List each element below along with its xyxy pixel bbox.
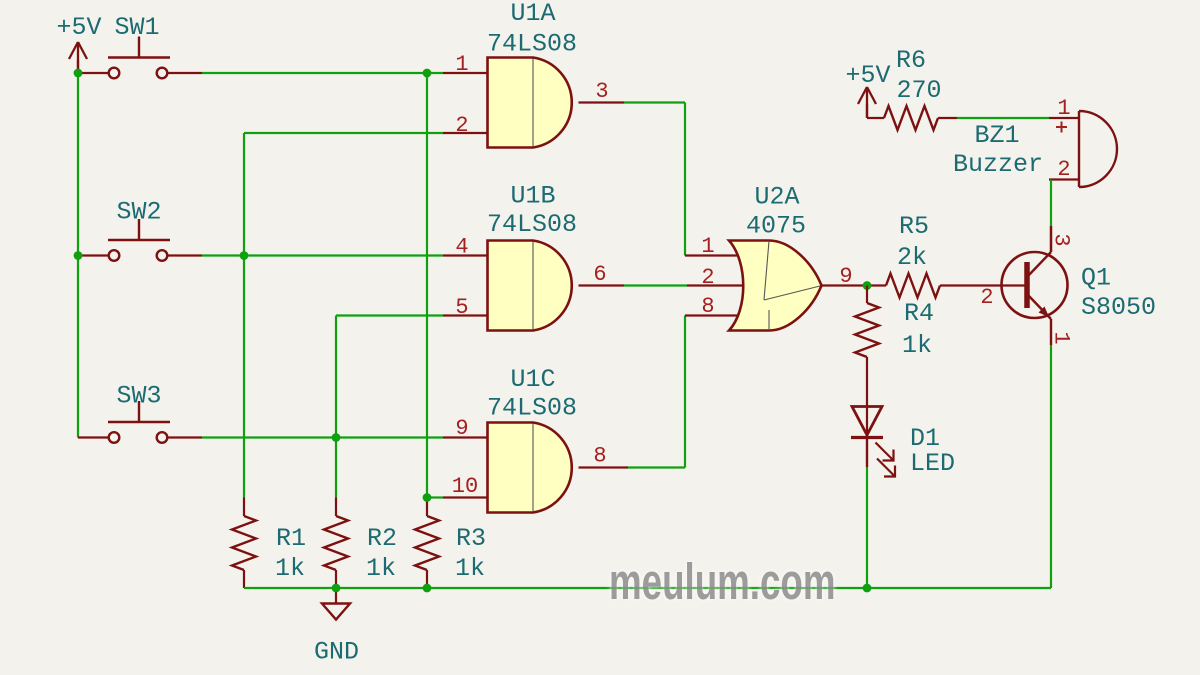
U1C pin 9 number <box>455 416 468 441</box>
U2A reference label <box>754 183 799 212</box>
wire SW2 pin stub left <box>78 254 109 256</box>
resistor R3 1k (vertical) <box>415 498 439 589</box>
svg-text:5: 5 <box>455 295 468 320</box>
Q1 pin 2 number (base) <box>980 285 993 310</box>
svg-text:R5: R5 <box>899 212 929 241</box>
resistor R2 1k (vertical) <box>324 498 348 589</box>
U1A pin 3 number <box>595 79 608 104</box>
R2 reference label <box>367 524 397 553</box>
svg-text:270: 270 <box>896 76 941 105</box>
svg-text:74LS08: 74LS08 <box>487 210 577 239</box>
wire LED cathode down to rail <box>866 467 868 588</box>
svg-text:R1: R1 <box>276 524 306 553</box>
U1A reference label <box>510 0 555 28</box>
svg-text:LED: LED <box>910 449 955 478</box>
svg-text:+5V: +5V <box>845 61 890 90</box>
Q1 pin 3 number (collector, rotated) <box>1049 233 1074 246</box>
U2A pin 1 number <box>701 234 714 259</box>
R6 value 270 <box>896 76 941 105</box>
BZ1 pin 2 number <box>1057 157 1070 182</box>
node junction at U2A output <box>863 281 872 290</box>
svg-text:1: 1 <box>1057 96 1070 121</box>
wire U2A output pin9 to node <box>822 284 867 286</box>
svg-text:R4: R4 <box>904 299 934 328</box>
R1 reference label <box>276 524 306 553</box>
U1A value 74LS08 <box>487 30 577 59</box>
transistor Q1 S8050 <box>1002 226 1068 345</box>
junction node SW1/R3/pin10 <box>423 493 432 502</box>
wire SW3 pin stub left <box>78 436 109 438</box>
U2A pin 2 number <box>701 265 714 290</box>
BZ1 reference label <box>974 121 1019 150</box>
wire SW3 to U1C pin9 (green) <box>202 436 443 438</box>
junction node SW2 net tap <box>240 251 249 260</box>
svg-text:8: 8 <box>593 444 606 469</box>
svg-text:2k: 2k <box>897 243 927 272</box>
junction node R2/GND rail <box>332 584 341 593</box>
svg-text:U1A: U1A <box>510 0 555 28</box>
R1 value 1k <box>275 554 305 583</box>
junction node SW1 net tap <box>423 69 432 78</box>
svg-text:SW1: SW1 <box>114 13 159 42</box>
Q1 reference label <box>1081 264 1111 293</box>
power +5V symbol (right, above R6) <box>858 87 876 118</box>
+5V net label (left) <box>56 13 101 42</box>
wire U1B output stub pin6 <box>579 284 625 286</box>
switch SW2 <box>108 219 170 261</box>
U1C pin 8 number <box>593 444 606 469</box>
junction node R3/rail <box>423 584 432 593</box>
junction node +5V/SW2 <box>74 251 83 260</box>
junction node SW3 net tap <box>332 433 341 442</box>
SW1 reference label <box>114 13 159 42</box>
svg-text:1: 1 <box>455 52 468 77</box>
wire SW1 pin stub left <box>78 72 109 74</box>
U1C pin 10 number <box>452 474 478 499</box>
GND net label <box>314 638 359 667</box>
+5V net label (right) <box>845 61 890 90</box>
BZ1 plus polarity mark <box>1056 122 1067 133</box>
watermark meulum.com <box>609 552 835 611</box>
junction node +5V/SW1 <box>74 69 83 78</box>
op-amp U1C 74LS08 AND gate body <box>488 423 572 513</box>
LED D1 <box>851 407 895 477</box>
wire U2A pin2 stub <box>687 284 744 286</box>
U2A value 4075 <box>746 212 806 241</box>
svg-text:2: 2 <box>980 285 993 310</box>
wire U1B pin5 horizontal (green) <box>336 314 443 316</box>
Q1 pin 1 number (emitter, rotated) <box>1049 331 1074 344</box>
svg-text:1: 1 <box>1049 331 1074 344</box>
resistor R4 1k (vertical) <box>855 286 879 438</box>
junction node LED/rail <box>863 584 872 593</box>
switch SW1 <box>108 37 170 79</box>
svg-text:Q1: Q1 <box>1081 264 1111 293</box>
wire U1A pin2 stub <box>443 132 488 134</box>
U1A pin 2 number <box>455 113 468 138</box>
wire SW1 output stub <box>167 72 202 74</box>
wire ground rail (green) <box>244 587 1051 589</box>
U1B pin 5 number <box>455 295 468 320</box>
svg-text:9: 9 <box>455 416 468 441</box>
R5 reference label <box>899 212 929 241</box>
svg-text:R6: R6 <box>896 46 926 75</box>
svg-text:+5V: +5V <box>56 13 101 42</box>
svg-text:1k: 1k <box>902 331 932 360</box>
U1C reference label <box>510 365 555 394</box>
svg-text:2: 2 <box>1057 157 1070 182</box>
wire Q1 emitter down to rail (green) <box>1050 345 1052 588</box>
wire SW2 output stub <box>167 254 202 256</box>
R5 value 2k <box>897 243 927 272</box>
svg-text:S8050: S8050 <box>1081 293 1156 322</box>
wire buzzer pin2 down to Q1 collector (green) <box>1050 180 1052 227</box>
R3 reference label <box>456 524 486 553</box>
svg-text:1k: 1k <box>275 554 305 583</box>
SW2 reference label <box>116 198 161 227</box>
svg-text:U1B: U1B <box>510 182 555 211</box>
svg-text:R3: R3 <box>456 524 486 553</box>
R3 value 1k <box>455 554 485 583</box>
svg-text:U1C: U1C <box>510 365 555 394</box>
svg-text:3: 3 <box>1049 233 1074 246</box>
svg-text:R2: R2 <box>367 524 397 553</box>
svg-text:BZ1: BZ1 <box>974 121 1019 150</box>
svg-text:1: 1 <box>701 234 714 259</box>
wire buzzer pin1 stub <box>1049 117 1079 119</box>
svg-text:1k: 1k <box>455 554 485 583</box>
R4 value 1k <box>902 331 932 360</box>
svg-text:2: 2 <box>455 113 468 138</box>
R6 reference label <box>896 46 926 75</box>
wire U1B pin4 stub <box>443 254 488 256</box>
wire U1C output to U2A pin8 (green, right then up) <box>628 316 685 468</box>
resistor R6 270 (horizontal) <box>867 106 957 130</box>
svg-text:10: 10 <box>452 474 478 499</box>
wire +5V vertical rail x=78 <box>77 73 79 438</box>
R4 reference label <box>904 299 934 328</box>
wire U1C pin9 stub <box>443 436 488 438</box>
buzzer BZ1 body <box>1079 111 1117 187</box>
op-amp U2A 4075 OR gate body <box>729 241 822 331</box>
Q1 value S8050 <box>1081 293 1156 322</box>
wire Q1 collector pin stub <box>1050 226 1052 252</box>
wire U1A pin2 horizontal (green) <box>244 132 443 134</box>
ground symbol <box>322 588 350 620</box>
BZ1 value Buzzer <box>953 150 1043 179</box>
wire U1C pin10 horizontal (green) <box>427 496 443 498</box>
U1B reference label <box>510 182 555 211</box>
svg-text:2: 2 <box>701 265 714 290</box>
svg-text:6: 6 <box>593 262 606 287</box>
switch SW3 <box>108 401 170 443</box>
svg-text:3: 3 <box>595 79 608 104</box>
wire vertical SW3 net to U1B pin5, x=336 <box>335 316 337 498</box>
D1 value LED <box>910 449 955 478</box>
wire R6 to buzzer pin1 (green) <box>957 117 1049 119</box>
resistor R5 2k (horizontal) <box>867 274 1027 298</box>
svg-text:Buzzer: Buzzer <box>953 150 1043 179</box>
op-amp U1B 74LS08 AND gate body <box>488 241 572 331</box>
wire U1A output stub pin3 <box>579 101 625 103</box>
wire SW2 to U1B pin4 (green) <box>202 254 443 256</box>
svg-text:4: 4 <box>455 235 468 260</box>
U2A pin 8 number <box>701 294 714 319</box>
wire U1C output stub pin8 <box>579 466 629 468</box>
BZ1 pin 1 number <box>1057 96 1070 121</box>
U1A pin 1 number <box>455 52 468 77</box>
svg-text:1k: 1k <box>366 554 396 583</box>
wire U1B output to U2A pin2 (green) <box>624 284 687 286</box>
svg-text:74LS08: 74LS08 <box>487 394 577 423</box>
op-amp U1A 74LS08 AND gate body <box>488 58 572 148</box>
svg-text:U2A: U2A <box>754 183 799 212</box>
wire U2A pin1 stub <box>685 254 742 256</box>
resistor R1 1k (vertical) <box>232 498 256 589</box>
power +5V symbol (left, above SW1) <box>69 42 87 73</box>
wire SW1 to U1A pin1 (green) <box>202 72 443 74</box>
svg-text:74LS08: 74LS08 <box>487 30 577 59</box>
SW3 reference label <box>116 382 161 411</box>
U1B pin 4 number <box>455 235 468 260</box>
wire vertical SW2 net to U1A pin2 and R1, x=244 <box>243 133 245 498</box>
svg-text:SW3: SW3 <box>116 382 161 411</box>
D1 reference label <box>910 424 940 453</box>
wire buzzer pin2 stub <box>1049 178 1079 180</box>
svg-text:SW2: SW2 <box>116 198 161 227</box>
wire U1C pin10 stub <box>443 496 488 498</box>
U1C value 74LS08 <box>487 394 577 423</box>
wire U1B pin5 stub <box>443 314 488 316</box>
wire U1A pin1 stub <box>443 72 488 74</box>
wire vertical SW1 net to U1C pin10 and R3, x=427 <box>426 73 428 498</box>
svg-text:8: 8 <box>701 294 714 319</box>
R2 value 1k <box>366 554 396 583</box>
U1B pin 6 number <box>593 262 606 287</box>
U1B value 74LS08 <box>487 210 577 239</box>
wire U1A output to U2A pin1 (green, right then down) <box>624 103 685 256</box>
wire U2A pin8 stub <box>685 314 742 316</box>
svg-text:4075: 4075 <box>746 212 806 241</box>
wire SW3 output stub <box>167 436 202 438</box>
svg-text:GND: GND <box>314 638 359 667</box>
U2A pin 9 number <box>839 264 852 289</box>
